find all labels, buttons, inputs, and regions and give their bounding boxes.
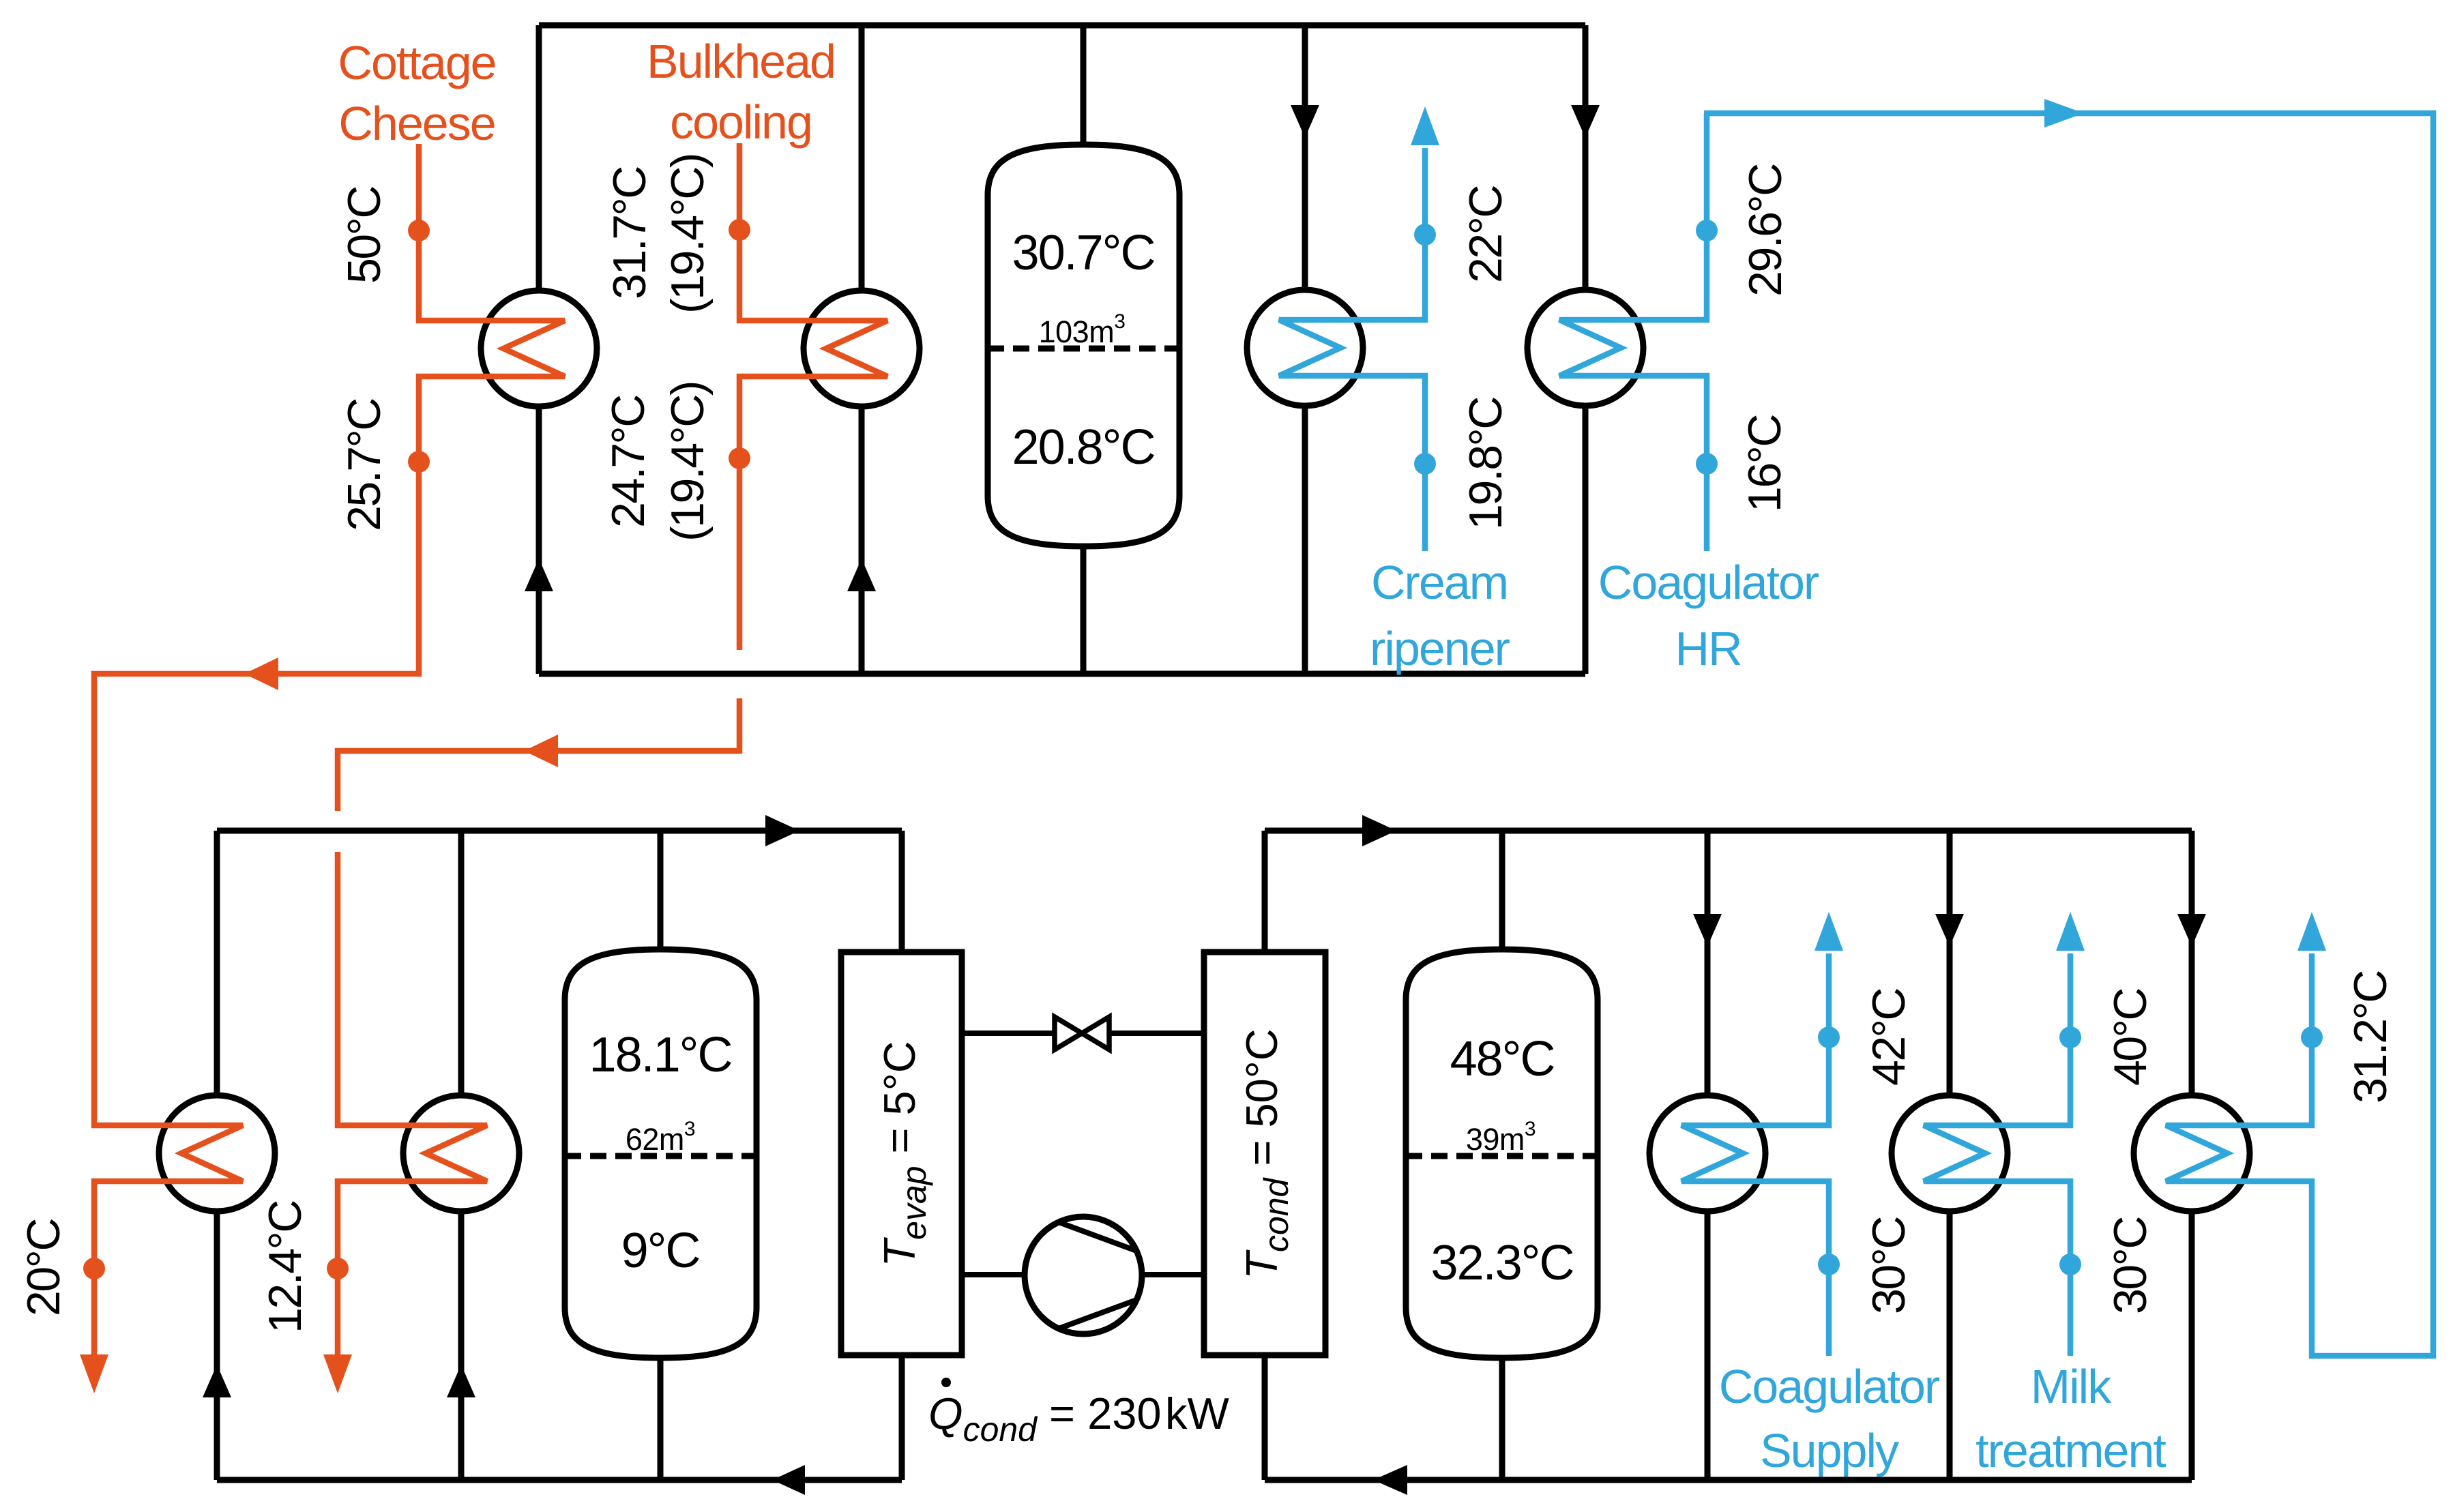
flow arrow up into HX1 — [525, 559, 553, 591]
flow arrow down into HX7 — [1693, 914, 1722, 947]
pipe blue transfer run and HX9 circuit — [1704, 113, 2433, 1356]
svg-text:Cheese: Cheese — [338, 97, 495, 150]
svg-text:19.8°C: 19.8°C — [1460, 398, 1512, 530]
label 31.7C — [604, 167, 656, 299]
svg-text:Bulkhead: Bulkhead — [647, 35, 835, 88]
label milk treatment — [1975, 1360, 2166, 1477]
svg-text:9°C: 9°C — [621, 1224, 700, 1278]
heat exchanger HX9 transfer — [2134, 1095, 2250, 1211]
label 42C — [1863, 989, 1915, 1086]
wire evaporator to compressor — [962, 1272, 1025, 1277]
label tank1 30.7C — [1012, 226, 1155, 280]
flow arrow 31.2C out — [2297, 912, 2326, 951]
flow arrow up into HX5 — [203, 1365, 231, 1397]
label 12.4C — [259, 1201, 311, 1333]
label tank2 volume — [626, 1118, 695, 1157]
label (19.4C) top — [662, 154, 714, 314]
node cottage cheese 50C — [408, 220, 430, 241]
flow arrow left on lower-right bottom border — [1373, 1465, 1407, 1495]
flow arrow right on lower-left top border — [765, 815, 799, 846]
node 31.2C — [2301, 1026, 2323, 1048]
compressor — [1025, 1217, 1142, 1334]
wire lower-right loop bottom border — [1265, 1477, 2192, 1483]
label cottage cheese — [338, 36, 495, 150]
svg-text:Cottage: Cottage — [338, 36, 495, 89]
svg-text:16°C: 16°C — [1739, 415, 1791, 512]
wire condenser top connector — [1262, 831, 1268, 952]
wire lower-right loop right edge — [2189, 831, 2195, 1480]
label coagulator HR — [1598, 556, 1819, 675]
wire upper loop branch HX3 — [1302, 25, 1308, 674]
wire evaporator top connector — [899, 831, 905, 952]
pipe cottage cheese circuit — [94, 144, 565, 1356]
flow arrow down into HX3 — [1291, 105, 1319, 138]
svg-text:Cream: Cream — [1371, 556, 1508, 609]
flow arrow coagulator supply out — [1815, 912, 1843, 951]
flow arrow cream ripener out — [1411, 106, 1439, 145]
svg-text:treatment: treatment — [1975, 1424, 2166, 1477]
wire upper loop right edge — [1583, 25, 1589, 674]
flow arrow up into HX6 — [447, 1365, 475, 1397]
heat exchanger HX3 cream ripener — [1247, 290, 1363, 406]
svg-text:cooling: cooling — [670, 95, 812, 149]
pipe cream ripener circuit — [1279, 148, 1425, 551]
svg-text:Coagulator: Coagulator — [1598, 556, 1819, 609]
condenser — [1204, 952, 1325, 1355]
node bulkhead 24.7C — [729, 447, 750, 469]
label 30C coagulator supply — [1863, 1217, 1915, 1314]
label tank3 32.3C — [1431, 1236, 1574, 1290]
pipe coagulator HR circuit — [1559, 113, 1707, 551]
label 25.7C — [338, 399, 390, 531]
label tank3 48C — [1450, 1032, 1555, 1086]
label tank2 18.1C — [589, 1028, 732, 1082]
svg-text:32.3°C: 32.3°C — [1431, 1236, 1574, 1290]
node milk treatment 40C — [2059, 1026, 2081, 1048]
svg-text:40°C: 40°C — [2104, 989, 2156, 1086]
node coagulator supply 30C — [1818, 1254, 1840, 1275]
wire valve to condenser — [1109, 1031, 1204, 1036]
node coagulator HR 29.6C — [1696, 220, 1718, 241]
wire lower-right loop branch HX7 — [1705, 831, 1711, 1480]
wire lower-left loop bottom border — [217, 1477, 902, 1483]
svg-text:HR: HR — [1675, 622, 1741, 675]
svg-text:22°C: 22°C — [1460, 186, 1512, 283]
flow arrow bulkhead outlet — [323, 1354, 352, 1393]
label tank2 9C — [621, 1224, 700, 1278]
flow arrow cottage outlet — [80, 1354, 108, 1393]
flow arrow bulkhead return — [524, 735, 558, 767]
svg-text:42°C: 42°C — [1863, 989, 1915, 1086]
svg-text:29.6°C: 29.6°C — [1739, 164, 1791, 297]
storage tank 62m3 — [565, 949, 757, 1358]
flow arrow down into HX9 — [2177, 914, 2206, 947]
node coagulator supply 42C — [1818, 1026, 1840, 1048]
heat exchanger HX1 cottage cheese — [481, 291, 597, 406]
svg-text:20°C: 20°C — [18, 1219, 70, 1316]
label tank1 volume — [1039, 310, 1126, 349]
heat exchanger HX6 bulkhead chiller — [403, 1095, 519, 1211]
wire lower-left loop branch HX6 — [458, 831, 465, 1480]
svg-text:31.7°C: 31.7°C — [604, 167, 656, 299]
label 19.8C — [1460, 398, 1512, 530]
storage tank 103m3 — [988, 145, 1179, 546]
svg-text:31.2°C: 31.2°C — [2345, 971, 2396, 1103]
svg-text:Milk: Milk — [2031, 1360, 2112, 1413]
wire condenser bottom connector — [1262, 1355, 1268, 1480]
pipe bulkhead cooling circuit — [338, 143, 887, 1356]
wire upper loop branch tank — [1081, 25, 1087, 674]
svg-text:25.7°C: 25.7°C — [338, 399, 390, 531]
node cream ripener 19.8C — [1414, 453, 1436, 475]
wire upper loop bottom border — [539, 671, 1585, 677]
svg-text:103m3: 103m3 — [1039, 310, 1126, 349]
label 29.6C — [1739, 164, 1791, 297]
flow arrow up into HX2 — [847, 559, 876, 591]
flow arrow down into HX4 — [1571, 105, 1600, 138]
label 16C — [1739, 415, 1791, 512]
label (19.4C) bottom — [662, 382, 714, 542]
node milk treatment 30C — [2059, 1254, 2081, 1275]
label 31.2C — [2345, 971, 2396, 1103]
flow arrow down into HX8 — [1935, 914, 1964, 947]
label tank1 20.8C — [1012, 420, 1155, 475]
node coagulator HR 16C — [1696, 453, 1718, 475]
svg-text:Coagulator: Coagulator — [1719, 1360, 1940, 1413]
heat exchanger HX7 coagulator supply — [1649, 1095, 1765, 1211]
heat exchanger HX5 cottage cheese chiller — [159, 1095, 275, 1211]
label 24.7C — [602, 396, 654, 528]
label 30C milk treatment — [2104, 1217, 2156, 1314]
heat exchanger HX2 bulkhead cooling — [804, 291, 920, 406]
wire lower-left loop left edge — [214, 831, 220, 1480]
pipe milk treatment circuit — [1924, 953, 2070, 1356]
flow arrow blue transfer — [2044, 99, 2084, 128]
label 40C — [2104, 989, 2156, 1086]
pipe coagulator supply circuit — [1681, 953, 1829, 1356]
heat exchanger HX8 milk treatment — [1892, 1095, 2008, 1211]
node bulkhead 12.4C — [327, 1258, 349, 1279]
label bulkhead cooling — [647, 35, 835, 149]
node cottage cheese 20C — [83, 1258, 105, 1279]
flow arrow left on lower-left bottom border — [772, 1465, 805, 1495]
svg-text:30.7°C: 30.7°C — [1012, 226, 1155, 280]
evaporator — [841, 952, 962, 1355]
label evaporator — [875, 1041, 933, 1266]
svg-text:ripener: ripener — [1370, 622, 1510, 675]
label 20C — [18, 1219, 70, 1316]
svg-text:30°C: 30°C — [1863, 1217, 1915, 1314]
svg-text:18.1°C: 18.1°C — [589, 1028, 732, 1082]
label coagulator supply — [1719, 1360, 1940, 1477]
label 22C — [1460, 186, 1512, 283]
wire lower-left loop branch tank — [658, 831, 664, 1480]
wire lower-right loop branch tank — [1499, 831, 1505, 1480]
heat exchanger HX4 coagulator HR — [1527, 290, 1643, 406]
svg-text:(19.4°C): (19.4°C) — [662, 382, 714, 542]
wire evaporator bottom connector — [899, 1355, 905, 1480]
wire lower-right loop top border — [1265, 828, 2192, 834]
label Qdot — [941, 1378, 951, 1387]
svg-text:(19.4°C): (19.4°C) — [662, 154, 714, 314]
node cream ripener 22C — [1414, 224, 1436, 246]
svg-text:48°C: 48°C — [1450, 1032, 1555, 1086]
node cottage cheese 25.7C — [408, 451, 430, 473]
svg-text:20.8°C: 20.8°C — [1012, 420, 1155, 475]
expansion valve — [1055, 1017, 1109, 1050]
label condenser — [1237, 1028, 1295, 1279]
wire lower-right loop branch HX8 — [1947, 831, 1953, 1480]
flow arrow cottage return — [244, 657, 278, 690]
label Qcond — [928, 1389, 1229, 1449]
flow arrow right on lower-right top border — [1362, 815, 1396, 846]
label cream ripener — [1370, 556, 1510, 675]
wire upper loop branch HX2 — [859, 25, 865, 674]
flow arrow milk treatment out — [2056, 912, 2085, 951]
svg-text:12.4°C: 12.4°C — [259, 1201, 311, 1333]
svg-text:Supply: Supply — [1760, 1424, 1899, 1477]
node bulkhead 31.7C — [729, 219, 750, 241]
svg-text:24.7°C: 24.7°C — [602, 396, 654, 528]
svg-text:30°C: 30°C — [2104, 1217, 2156, 1314]
label 50C — [338, 187, 390, 284]
wire upper loop left edge — [536, 25, 542, 674]
svg-text:50°C: 50°C — [338, 187, 390, 284]
wire evaporator to valve — [962, 1031, 1055, 1036]
label tank3 volume — [1466, 1118, 1536, 1157]
wire upper loop top border — [539, 23, 1585, 29]
wire compressor to condenser — [1142, 1272, 1204, 1277]
wire lower-left loop top border — [217, 828, 902, 834]
storage tank 39m3 — [1406, 949, 1598, 1358]
